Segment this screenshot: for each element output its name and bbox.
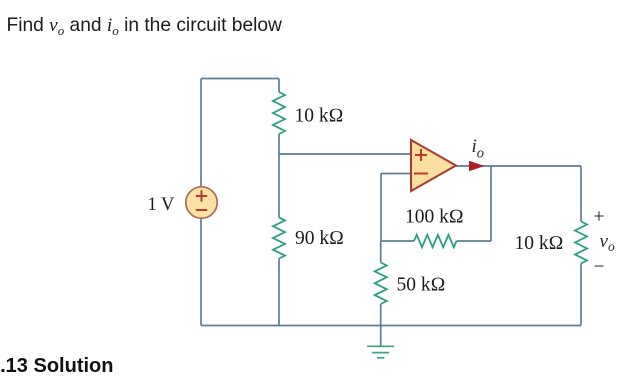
svg-text:−: − bbox=[594, 257, 605, 278]
svg-text:+: + bbox=[594, 207, 605, 228]
svg-text:100 kΩ: 100 kΩ bbox=[405, 207, 464, 228]
wire feedback right bbox=[457, 240, 492, 242]
wire inverting input bbox=[381, 173, 411, 175]
wire feedback left bbox=[381, 240, 414, 242]
svg-text:5.13 Solution: 5.13 Solution bbox=[0, 355, 113, 377]
wire inverting vertical bbox=[380, 174, 382, 242]
voltage source V1 1V bbox=[186, 187, 217, 218]
wire right vertical lower bbox=[580, 264, 582, 326]
svg-text:Find vo and io in the circuit: Find vo and io in the circuit below bbox=[7, 15, 283, 38]
svg-text:1 V: 1 V bbox=[148, 195, 176, 215]
wire 50k top stub bbox=[380, 241, 382, 263]
wire ground stub bbox=[380, 326, 382, 346]
wire left vertical lower bbox=[200, 219, 202, 326]
wire top horizontal bbox=[201, 78, 279, 80]
ground bbox=[367, 346, 394, 358]
wire output horizontal bbox=[456, 165, 581, 167]
wire node column between resistors bbox=[278, 134, 280, 218]
svg-text:10 kΩ: 10 kΩ bbox=[515, 233, 564, 254]
op-amp U1 bbox=[411, 140, 456, 191]
wire noninverting input bbox=[279, 153, 411, 155]
svg-text:io: io bbox=[472, 136, 485, 162]
wire node column below 90k bbox=[278, 259, 280, 326]
resistor R4 50k zigzag bbox=[375, 263, 387, 305]
wire feedback vertical bbox=[490, 166, 492, 241]
svg-text:50 kΩ: 50 kΩ bbox=[397, 275, 446, 296]
wire node column stub to 10k top bbox=[278, 79, 280, 93]
wire bottom horizontal bbox=[201, 325, 581, 327]
resistor R1 10k top zigzag bbox=[273, 92, 285, 134]
svg-text:90 kΩ: 90 kΩ bbox=[295, 228, 344, 249]
io arrow bbox=[469, 161, 485, 171]
resistor R5 10k right zigzag bbox=[575, 222, 587, 264]
resistor R3 100k zigzag bbox=[414, 235, 457, 247]
wire right vertical upper bbox=[580, 166, 582, 222]
svg-text:10 kΩ: 10 kΩ bbox=[295, 106, 344, 127]
wire left vertical upper bbox=[200, 79, 202, 187]
resistor R2 90k zigzag bbox=[273, 218, 285, 259]
wire 50k bottom stub bbox=[380, 304, 382, 326]
svg-text:vo: vo bbox=[600, 231, 615, 254]
